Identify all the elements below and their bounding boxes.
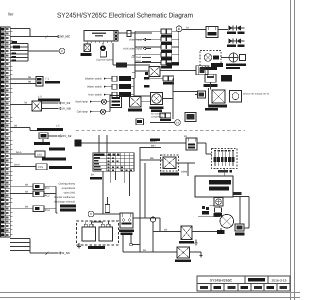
svg-text:24V feed: 24V feed — [131, 56, 141, 59]
label preheat feed — [204, 84, 218, 87]
wire 43 battery feed — [123, 251, 177, 253]
wire to pressure switch — [10, 127, 30, 129]
svg-text:Bucket confluence: Bucket confluence — [54, 196, 75, 199]
horn diode pair 1 — [229, 26, 234, 31]
fuse bus — [178, 32, 180, 64]
fuse F05 out wire — [172, 62, 179, 64]
svg-text:PC3: PC3 — [45, 209, 50, 212]
svg-text:4B: 4B — [164, 228, 167, 231]
injector pins — [214, 152, 216, 157]
wire node down — [152, 222, 154, 252]
fuse feed riser — [134, 31, 136, 78]
feed boxes left of charge indicator — [202, 206, 205, 209]
buzzer box — [215, 208, 222, 213]
proportional valve PC1 — [33, 184, 44, 190]
title block drawing name (CJK) — [248, 278, 265, 282]
fuse F02 out wire — [172, 38, 179, 40]
wire to valve PC3 — [10, 207, 33, 209]
switch row 2 fuse — [112, 84, 117, 89]
row2 aux mark — [144, 85, 150, 88]
relay K1 wiper — [32, 101, 42, 111]
alternator terminal box — [235, 224, 244, 231]
preheat contactor contacts — [198, 91, 206, 98]
arrow on wire 3W_MC — [45, 36, 48, 39]
svg-text:Wiper switch: Wiper switch — [87, 86, 102, 89]
wire preheat row — [173, 91, 198, 93]
svg-text:b/DIM: b/DIM — [181, 170, 187, 173]
wire PC3 to bus — [44, 207, 56, 209]
wire to sensor CYS2 — [10, 166, 36, 168]
lamp relay box — [110, 96, 122, 108]
border bottom double line — [0, 292, 300, 294]
pilot switch lamp — [204, 54, 212, 62]
triple operator switch S1 — [36, 77, 43, 87]
title block frame — [197, 276, 290, 291]
wire 9B to fuel pump relay — [82, 142, 187, 144]
svg-text:PC1: PC1 — [45, 187, 50, 190]
wire fuel pump relay out — [197, 142, 206, 144]
svg-text:(Ensure the tranquil rate A): (Ensure the tranquil rate A) — [243, 93, 269, 96]
wire to valve PC1 — [10, 185, 33, 187]
fuse F04 label — [161, 58, 172, 61]
preheat relay KA4 — [212, 90, 225, 103]
label buzzer — [214, 213, 223, 216]
spare relay label — [211, 63, 223, 67]
svg-text:4B: 4B — [25, 183, 28, 186]
flasher unit — [136, 119, 144, 125]
preheat feed box — [205, 74, 216, 82]
svg-text:A: A — [61, 49, 63, 53]
svg-text:Horn switch: Horn switch — [88, 94, 102, 97]
wire glow relay out — [190, 251, 202, 253]
arrow on W_NC wire — [46, 252, 49, 256]
accessory row wire onward — [127, 64, 150, 66]
wire node5 to start resistor — [94, 213, 120, 215]
wiper relay K5 — [130, 97, 142, 108]
battery compartment dashed box — [77, 221, 119, 245]
wire safety relay to ECU — [176, 162, 195, 164]
wire start relay to starter — [192, 231, 221, 233]
work lamp symbol — [90, 101, 93, 103]
wire blower to bus — [163, 98, 174, 100]
switch row 1 contact — [104, 78, 107, 80]
svg-text:5A: 5A — [186, 26, 189, 29]
svg-text:9B: 9B — [28, 76, 31, 79]
switch row 1 fuse — [112, 76, 117, 81]
video plug connector — [127, 31, 131, 37]
wire PC1 to bus — [44, 185, 56, 187]
node A circle — [59, 48, 65, 54]
wire YV1 down — [42, 139, 44, 143]
svg-text:discharge solenoid: discharge solenoid — [54, 201, 76, 204]
diagnostic group bus — [27, 44, 29, 62]
label safety relay — [160, 172, 179, 175]
pressure sensor CYS1 — [35, 151, 45, 157]
key switch table SA1 — [93, 153, 134, 171]
wire to net W_NC — [30, 252, 58, 254]
svg-text:PC2: PC2 — [45, 194, 50, 197]
engine ECU box — [195, 176, 233, 197]
key table riser 1 — [98, 135, 100, 153]
node B circle — [176, 26, 182, 32]
node 14 circle — [175, 120, 181, 126]
horn diode pair 2 — [229, 39, 234, 44]
label under preheat riser — [205, 108, 218, 111]
wire 3W_MC — [10, 36, 58, 38]
cigarette lighter E1 — [102, 43, 104, 45]
blower motor M3 — [152, 94, 162, 104]
start relay KA1 — [181, 226, 192, 240]
safety relay KA3 — [163, 157, 176, 169]
label horn pair 1 — [227, 32, 236, 34]
fuse F03 body — [161, 45, 166, 50]
key table header text — [94, 154, 105, 156]
svg-text:9B: 9B — [28, 81, 31, 84]
relay K1 output wires — [42, 102, 59, 104]
diagnostic connector group wires — [10, 43, 28, 45]
label starter M — [217, 230, 225, 234]
fuse F03 out wire — [172, 46, 179, 48]
fuse F05 feed wire — [135, 62, 161, 64]
switch row 3 contact — [104, 94, 107, 96]
fuse F01 out wire — [172, 30, 179, 32]
svg-text:4B: 4B — [25, 205, 28, 208]
small relay K3 — [149, 67, 160, 77]
label beacon / CAN resistor — [226, 63, 246, 66]
ground at glow output — [200, 252, 202, 256]
switch row 2 connector label — [119, 84, 131, 89]
net label 5V_K2 — [58, 102, 60, 104]
left dark label below lamp rows — [75, 140, 82, 147]
svg-text:2B: 2B — [14, 125, 17, 128]
svg-text:W_NC: W_NC — [61, 251, 71, 255]
svg-text:AUX video input: AUX video input — [123, 47, 142, 50]
battery link wires — [85, 221, 87, 224]
proportional valve PC3 — [33, 206, 44, 212]
switch row 3 fuse — [112, 92, 117, 97]
row1 aux mark — [144, 77, 150, 80]
wire pilot to beacon — [221, 57, 229, 59]
svg-text:7B: 7B — [24, 102, 27, 105]
strip pin tick stubs — [10, 31, 12, 33]
glow relay KA2 — [177, 247, 190, 258]
cab lamp symbol — [90, 111, 93, 113]
label small relay K3 — [145, 72, 148, 75]
wire to valve PC2 — [10, 193, 33, 195]
svg-text:ller: ller — [8, 12, 14, 17]
wire PC2 to bus — [44, 193, 56, 195]
battery GB1 — [82, 227, 96, 241]
wire feed to charge indicator — [210, 205, 215, 207]
key table contact dots — [108, 157, 110, 159]
fuse F01 body — [161, 29, 166, 34]
preheat riser — [208, 88, 210, 108]
monitor plug wire right — [131, 32, 152, 34]
label battery — [88, 246, 105, 249]
wire to sensor CYS1 — [10, 153, 35, 155]
title block signature cells — [200, 286, 208, 289]
main power relay KM0 — [206, 27, 218, 38]
switch row 2 wire — [131, 86, 134, 88]
wire stub at strip top — [10, 28, 30, 30]
wire main relay to horns — [218, 29, 228, 31]
monitor pin ticks — [86, 41, 88, 43]
fuse F01 label — [161, 34, 172, 37]
diagnostic group pin labels — [12, 41, 18, 43]
start resistor R1 — [105, 205, 110, 213]
power relay KM1 — [120, 213, 133, 228]
svg-text:2M-A: 2M-A — [14, 164, 20, 167]
charge indicator lamp — [216, 199, 222, 205]
label injector bank — [218, 170, 228, 173]
fuse riser stubs — [132, 54, 135, 56]
svg-text:M6-: M6- — [150, 157, 154, 160]
power relay down wires — [122, 235, 124, 252]
svg-text:Cab lamp: Cab lamp — [77, 111, 89, 114]
key table riser 2 — [106, 135, 108, 153]
wire riser to K3 — [135, 70, 149, 72]
svg-text:3W_MC: 3W_MC — [59, 35, 71, 39]
monitor pin wire down to accessory row — [112, 43, 114, 65]
wire riser x160 — [159, 218, 161, 232]
label alternator — [235, 232, 245, 235]
charge indicator box — [214, 198, 223, 207]
fuse F02 feed wire — [135, 38, 161, 40]
svg-text:2016-3-15: 2016-3-15 — [271, 279, 286, 283]
label pilot switch — [200, 67, 217, 70]
label glow relay — [175, 259, 191, 262]
net label W_NC — [58, 252, 60, 254]
pilot switch dashed box — [200, 51, 221, 67]
wire riser x145 — [144, 163, 146, 218]
fuse F04 feed wire — [135, 54, 161, 56]
wire pair to triple operator — [10, 78, 36, 80]
svg-text:B+: B+ — [91, 174, 95, 177]
strip bottom ladder wires — [10, 238, 30, 240]
wire to contacts — [195, 94, 198, 96]
label 12V outlet — [81, 53, 92, 56]
key table row labels — [94, 157, 100, 159]
accessory connector on wire — [116, 63, 127, 68]
ACC diode block — [196, 66, 208, 75]
fuse F03 label — [161, 50, 172, 53]
monitor side connector — [114, 31, 118, 42]
connector X1 main controller pin strip — [1, 27, 11, 237]
svg-text:3A-A: 3A-A — [16, 151, 22, 154]
key table down wires — [102, 171, 104, 214]
wire y218 link — [133, 217, 160, 219]
engine ECU label — [209, 180, 231, 184]
label start relay — [179, 241, 194, 244]
monitor wire to plug — [118, 32, 127, 34]
proportional valve PC2 — [33, 191, 44, 197]
svg-text:B: B — [178, 27, 180, 31]
label B+ terminal — [233, 192, 242, 195]
svg-text:Cigarette lighter: Cigarette lighter — [96, 59, 113, 62]
wire F06 feed — [150, 77, 163, 79]
svg-text:SY245H/SY265C Electrical Sche: SY245H/SY265C Electrical Schematic Diagr… — [57, 12, 193, 20]
mid bus riser — [172, 77, 175, 79]
svg-text:Washer switch: Washer switch — [85, 78, 103, 81]
svg-text:24V_K2: 24V_K2 — [61, 134, 72, 138]
cab/frame dashed separator line — [76, 130, 245, 132]
wire label 9B-16 — [150, 139, 160, 142]
wire M6 to preheat — [140, 147, 161, 149]
ACC relay label — [167, 62, 180, 65]
wire buzzer down — [218, 206, 220, 208]
starter motor M1 — [220, 214, 234, 228]
wire YV1 to net 24V_K2 — [48, 135, 58, 137]
glow plug resistor — [230, 91, 242, 103]
svg-text:7-1: 7-1 — [45, 78, 49, 81]
svg-text:L-5: L-5 — [38, 96, 42, 99]
svg-text:CYS: CYS — [37, 153, 42, 156]
alternator loop right leg — [248, 197, 250, 229]
wire to relay K1 — [10, 104, 32, 106]
wire preheat box down — [210, 82, 212, 89]
wire ACC row — [160, 70, 196, 72]
wire into safety relay — [140, 159, 163, 161]
fuse F12 12V outlet — [86, 43, 88, 44]
border right double line — [290, 0, 292, 300]
battery ground — [78, 243, 80, 247]
pressure sensor CYS2 — [36, 164, 47, 170]
wire node14 left — [150, 122, 175, 124]
label pilot pressure sensor — [42, 157, 66, 160]
svg-text:Closing priority: Closing priority — [58, 183, 75, 186]
svg-text:4B: 4B — [25, 191, 28, 194]
label blower motor — [150, 106, 164, 109]
switch row 1 connector label — [119, 76, 131, 81]
wire B+ drop — [239, 197, 241, 225]
fuel pump relay K9 — [186, 138, 197, 150]
label spare valve block — [60, 205, 76, 208]
svg-text:Air conditioner: Air conditioner — [151, 112, 166, 115]
net label 5V_NB — [58, 107, 60, 109]
svg-text:Work lamp: Work lamp — [76, 101, 89, 104]
safety relay KA3 dashed box — [161, 155, 179, 171]
junction node on 43 wire — [130, 243, 133, 246]
switch row 3 connector label — [119, 92, 131, 97]
beacon terminal box — [240, 55, 246, 61]
ECU wire from injectors — [223, 169, 225, 177]
svg-text:5V_K2: 5V_K2 — [61, 101, 70, 105]
switch rows bus — [133, 79, 135, 96]
label pump pressure sensor — [49, 166, 72, 169]
preheat feed out label — [221, 75, 232, 82]
label wiper relay — [128, 109, 142, 112]
label preheat relay — [209, 104, 227, 107]
spare fuse group F07 — [160, 113, 165, 118]
label block right of +24V — [49, 148, 65, 151]
svg-text:proportional: proportional — [62, 187, 76, 190]
svg-text:5V_NB: 5V_NB — [61, 107, 70, 111]
wire into starter — [198, 216, 220, 218]
wire ECU to alternator loop — [233, 196, 249, 198]
wire node B to main relay — [182, 29, 206, 31]
battery GB2 — [99, 227, 113, 241]
switch row 2 contact — [104, 86, 107, 88]
svg-text:valve (A6): valve (A6) — [64, 192, 75, 195]
fuse F01 feed wire — [135, 30, 161, 32]
wire relay to mid — [141, 101, 150, 103]
injector bank header marks — [214, 150, 216, 152]
node circle start feed — [150, 217, 155, 222]
fuse F04 body — [161, 52, 166, 57]
svg-text:CYS: CYS — [38, 166, 43, 169]
beacon lamp circled plus — [229, 53, 238, 62]
fuse F03 feed wire — [135, 46, 161, 48]
fuse F02 body — [161, 37, 166, 42]
label +24V POWER — [34, 142, 50, 145]
node 5 circle — [88, 211, 94, 217]
fuse F02 label — [161, 42, 172, 45]
label power relay — [119, 229, 134, 232]
cab fuse group F06 — [163, 76, 168, 81]
fuse F05 body — [161, 60, 166, 65]
wire to node A — [28, 50, 59, 52]
fuse F05 label — [161, 66, 172, 69]
switch row 3 wire — [131, 94, 134, 96]
injector connector bank dashed box — [212, 149, 238, 169]
fuse F04 out wire — [172, 54, 179, 56]
monitor display unit U2 — [84, 31, 114, 42]
svg-text:M6+: M6+ — [151, 144, 156, 147]
solenoid valve YV1 — [39, 133, 48, 139]
svg-text:compressor: compressor — [151, 116, 163, 119]
valve return bus — [55, 186, 57, 213]
label horn pair 2 — [227, 45, 236, 47]
wire riser x140 — [139, 147, 141, 252]
cigarette lighter return loop wire — [99, 51, 101, 57]
wire to start relay — [153, 231, 181, 233]
net label 24V_K2 — [58, 135, 60, 137]
switch row 1 wire — [131, 78, 134, 80]
mid small box — [185, 113, 196, 122]
svg-text:SY245H/265C: SY245H/265C — [210, 279, 233, 283]
ground below start relay — [195, 240, 197, 244]
